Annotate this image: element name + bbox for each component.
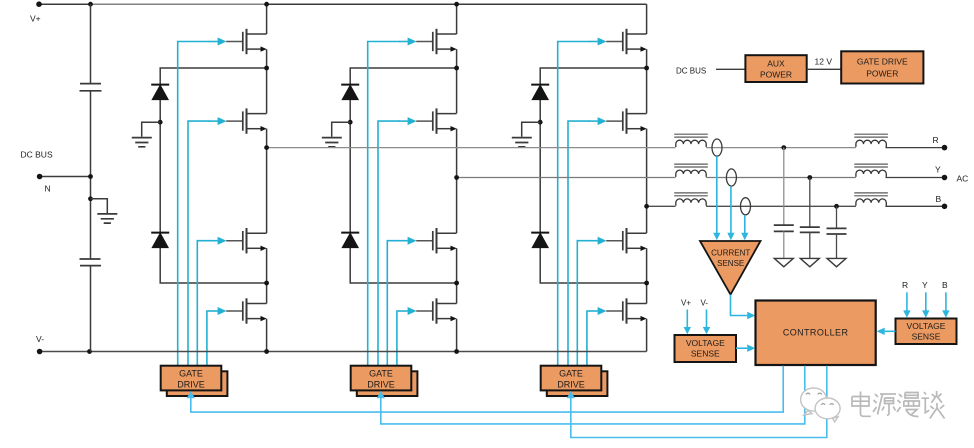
svg-text:AUX: AUX — [767, 59, 785, 69]
svg-text:V+: V+ — [30, 14, 41, 24]
svg-text:POWER: POWER — [760, 70, 792, 80]
svg-text:DC BUS: DC BUS — [21, 150, 53, 160]
svg-text:R: R — [933, 135, 939, 145]
svg-text:GATE: GATE — [179, 369, 203, 379]
svg-text:GATE DRIVE: GATE DRIVE — [857, 57, 908, 67]
svg-text:DC BUS: DC BUS — [676, 67, 706, 76]
svg-text:N: N — [45, 183, 51, 193]
svg-text:Y: Y — [935, 165, 941, 175]
svg-text:V-: V- — [36, 334, 44, 344]
svg-text:SENSE: SENSE — [691, 349, 720, 359]
svg-text:POWER: POWER — [866, 69, 898, 79]
svg-text:B: B — [942, 280, 948, 290]
svg-text:VOLTAGE: VOLTAGE — [686, 338, 725, 348]
svg-text:DRIVE: DRIVE — [177, 380, 205, 390]
svg-text:VOLTAGE: VOLTAGE — [907, 321, 946, 331]
svg-text:12 V: 12 V — [815, 57, 833, 67]
svg-text:B: B — [936, 194, 942, 204]
svg-text:CONTROLLER: CONTROLLER — [783, 328, 849, 338]
svg-text:AC: AC — [957, 174, 969, 184]
svg-text:R: R — [902, 280, 908, 290]
svg-text:Y: Y — [922, 280, 928, 290]
svg-text:CURRENT: CURRENT — [711, 249, 750, 258]
svg-text:V+: V+ — [681, 299, 691, 308]
svg-text:SENSE: SENSE — [717, 259, 744, 268]
svg-text:V-: V- — [701, 299, 709, 308]
svg-text:SENSE: SENSE — [912, 332, 941, 342]
